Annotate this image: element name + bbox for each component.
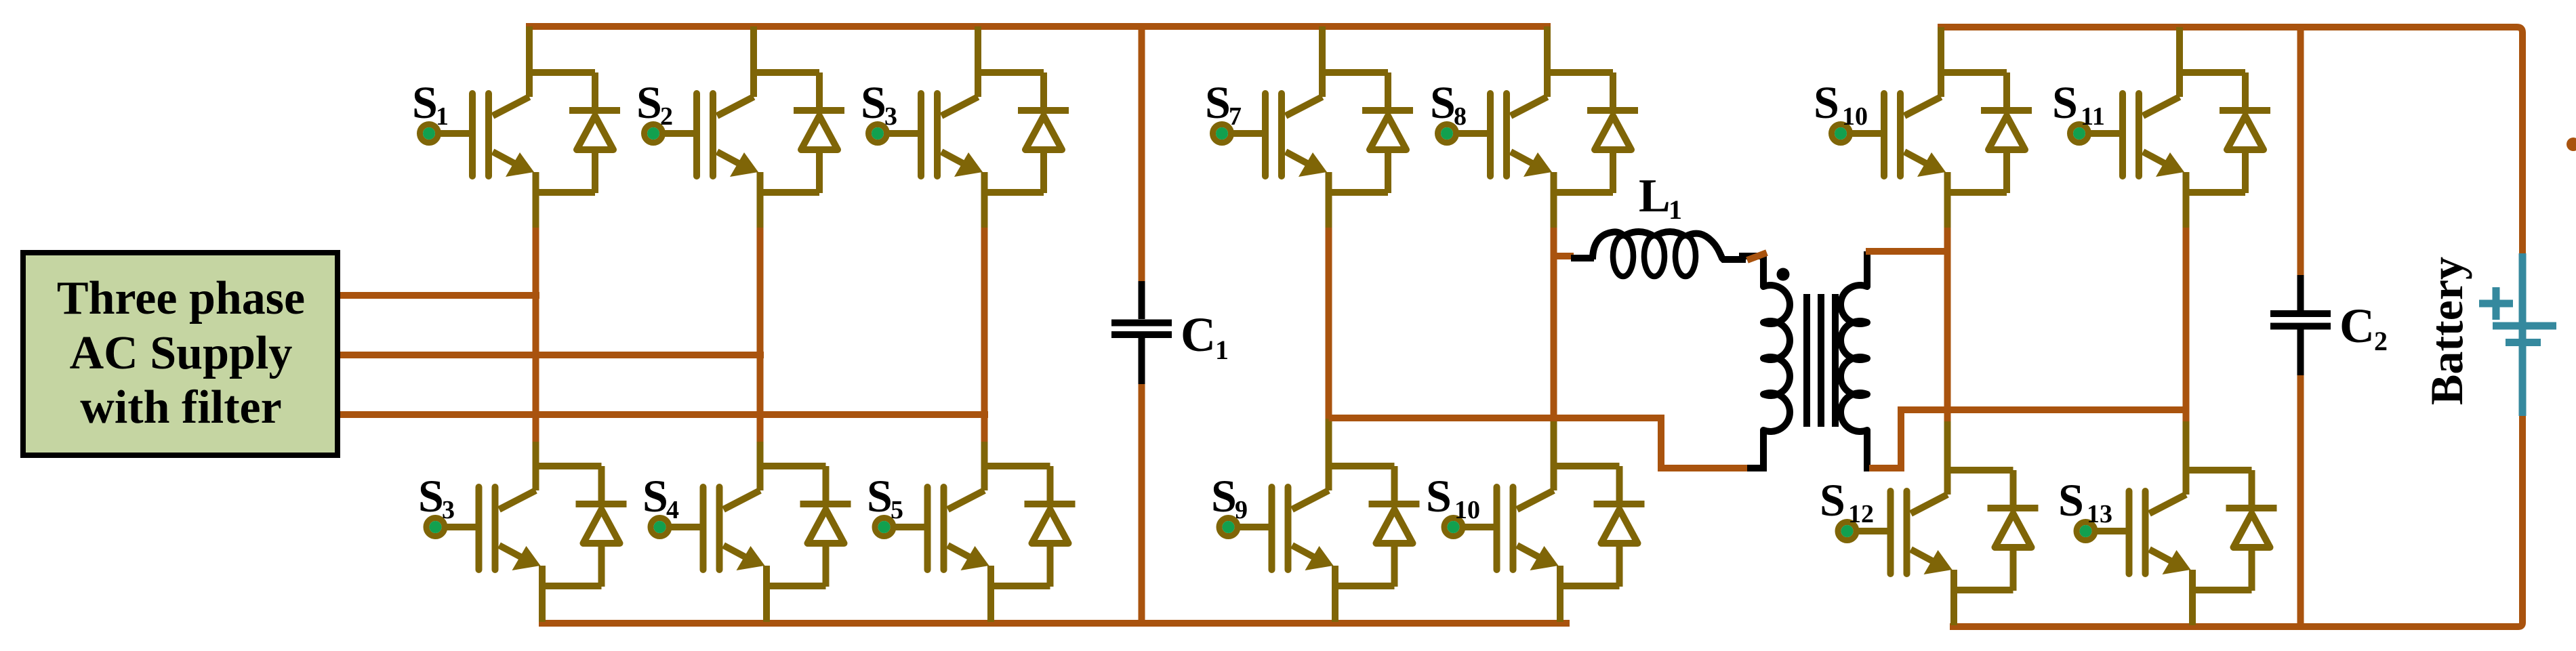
transformer core bbox=[1807, 294, 1835, 427]
svg-text:S: S bbox=[1814, 77, 1839, 128]
wire leg upper olive bbox=[1326, 190, 1332, 230]
wire leg middle orange bbox=[2183, 228, 2190, 424]
transistor S5 (bottom) bbox=[867, 463, 1076, 588]
wire leg upper olive bbox=[981, 190, 988, 230]
wire leg emitter stub bbox=[1557, 581, 1563, 622]
wire leg lower olive bbox=[2183, 421, 2190, 470]
svg-text:5: 5 bbox=[891, 496, 903, 524]
svg-text:9: 9 bbox=[1235, 496, 1248, 524]
wire leg upper olive bbox=[2183, 190, 2190, 230]
wire leg lower olive bbox=[533, 442, 539, 466]
inductor L1 bbox=[1571, 170, 1746, 276]
svg-text:Battery: Battery bbox=[2421, 257, 2472, 405]
transformer secondary winding bbox=[1841, 251, 1873, 468]
wire bottom bus left bbox=[539, 620, 1570, 627]
capacitor C2 bbox=[2270, 27, 2388, 627]
transistor S4 (bottom) bbox=[642, 463, 851, 588]
svg-text:S: S bbox=[1820, 474, 1845, 526]
svg-text:S: S bbox=[1205, 77, 1231, 128]
three phase AC supply box bbox=[23, 253, 338, 455]
svg-text:3: 3 bbox=[442, 496, 455, 524]
svg-text:1: 1 bbox=[1669, 194, 1682, 225]
wire leg collector stub bbox=[526, 26, 533, 72]
wire top bus left bbox=[526, 23, 1551, 30]
svg-text:8: 8 bbox=[1454, 102, 1467, 131]
wire leg lower olive bbox=[1326, 419, 1332, 466]
transformer polarity dot bbox=[1777, 268, 1790, 281]
battery bbox=[2421, 253, 2556, 416]
wire leg collector stub bbox=[2176, 27, 2183, 72]
svg-text:S: S bbox=[2058, 474, 2084, 526]
svg-text:2: 2 bbox=[660, 102, 673, 131]
wire phase B bbox=[340, 352, 764, 358]
svg-text:S: S bbox=[1430, 77, 1456, 128]
transistor S3 (top) bbox=[861, 70, 1069, 194]
wire leg emitter stub bbox=[2189, 585, 2196, 625]
wire leg middle orange bbox=[757, 228, 764, 444]
svg-text:AC Supply: AC Supply bbox=[70, 327, 293, 379]
svg-text:4: 4 bbox=[666, 496, 679, 524]
transistor S3 (bottom) bbox=[418, 463, 627, 588]
transistor S11 (top) bbox=[2052, 70, 2270, 194]
wire leg emitter stub bbox=[539, 581, 546, 622]
wire leg middle orange bbox=[1551, 228, 1557, 421]
svg-text:S: S bbox=[642, 470, 668, 522]
transistor S9 (bottom) bbox=[1211, 463, 1420, 588]
wire leg collector stub bbox=[1938, 27, 1944, 72]
wire leg upper olive bbox=[1551, 190, 1557, 230]
transistor S12 (bottom) bbox=[1820, 467, 2039, 592]
svg-text:S: S bbox=[2052, 77, 2078, 128]
wire top bus right bbox=[1938, 27, 2522, 253]
wire leg lower olive bbox=[981, 442, 988, 466]
transistor S8 (top) bbox=[1430, 70, 1638, 194]
wire leg5 midpoint stub to L1 bbox=[1551, 253, 1574, 259]
transistor S2 (top) bbox=[636, 70, 844, 194]
wire leg emitter stub bbox=[987, 581, 994, 622]
wire leg middle orange bbox=[1326, 228, 1332, 421]
svg-text:13: 13 bbox=[2087, 500, 2112, 528]
svg-text:S: S bbox=[1211, 470, 1237, 522]
wire bottom bus right bbox=[1950, 416, 2522, 627]
transistor S10 (top) bbox=[1814, 70, 2032, 194]
svg-text:S: S bbox=[861, 77, 886, 128]
svg-text:Three phase: Three phase bbox=[57, 272, 305, 324]
node (clipped junction dot) bbox=[2567, 138, 2576, 151]
svg-text:10: 10 bbox=[1454, 496, 1480, 524]
svg-text:S: S bbox=[412, 77, 438, 128]
wire leg middle orange bbox=[1944, 228, 1951, 424]
svg-text:3: 3 bbox=[884, 102, 897, 131]
wire leg4 midpoint to transformer primary bottom bbox=[1329, 418, 1756, 468]
transformer primary winding bbox=[1739, 255, 1790, 468]
transistor S13 (bottom) bbox=[2058, 467, 2277, 592]
wire leg upper olive bbox=[533, 190, 539, 230]
svg-text:C: C bbox=[1181, 308, 1216, 362]
svg-text:S: S bbox=[418, 470, 444, 522]
svg-text:1: 1 bbox=[1215, 335, 1229, 365]
wire leg collector stub bbox=[1544, 26, 1551, 72]
wire leg collector stub bbox=[750, 26, 757, 72]
transistor S10 (bottom) bbox=[1426, 463, 1645, 588]
svg-text:2: 2 bbox=[2374, 326, 2388, 356]
svg-text:S: S bbox=[1426, 470, 1452, 522]
capacitor C1 bbox=[1111, 26, 1229, 623]
svg-text:C: C bbox=[2339, 299, 2375, 353]
svg-text:1: 1 bbox=[436, 102, 449, 131]
wire leg emitter stub bbox=[763, 581, 770, 622]
wire secondary bottom to right bridge leg7 bbox=[1869, 410, 2186, 468]
svg-text:S: S bbox=[867, 470, 893, 522]
wire leg lower olive bbox=[757, 442, 764, 466]
wire leg lower olive bbox=[1944, 421, 1951, 470]
wire orange joint L1 to transformer bbox=[1747, 253, 1767, 260]
wire leg middle orange bbox=[981, 228, 988, 444]
wire leg lower olive bbox=[1551, 419, 1557, 466]
wire leg emitter stub bbox=[1332, 581, 1338, 622]
wire phase C bbox=[340, 411, 988, 418]
wire leg collector stub bbox=[975, 26, 981, 72]
wire leg collector stub bbox=[1319, 26, 1326, 72]
transistor S7 (top) bbox=[1205, 70, 1413, 194]
svg-text:10: 10 bbox=[1842, 102, 1868, 131]
wire leg upper olive bbox=[757, 190, 764, 230]
transistor S1 (top) bbox=[412, 70, 620, 194]
wire secondary top to right bridge leg6 bbox=[1866, 248, 1948, 255]
wire leg upper olive bbox=[1944, 190, 1951, 230]
svg-text:12: 12 bbox=[1848, 500, 1874, 528]
svg-text:11: 11 bbox=[2081, 102, 2105, 131]
svg-text:L: L bbox=[1639, 170, 1671, 222]
svg-text:7: 7 bbox=[1229, 102, 1242, 131]
wire phase A bbox=[340, 292, 539, 299]
wire leg middle orange bbox=[533, 228, 539, 444]
svg-text:S: S bbox=[636, 77, 662, 128]
svg-text:with filter: with filter bbox=[80, 381, 281, 434]
wire leg emitter stub bbox=[1950, 585, 1957, 625]
